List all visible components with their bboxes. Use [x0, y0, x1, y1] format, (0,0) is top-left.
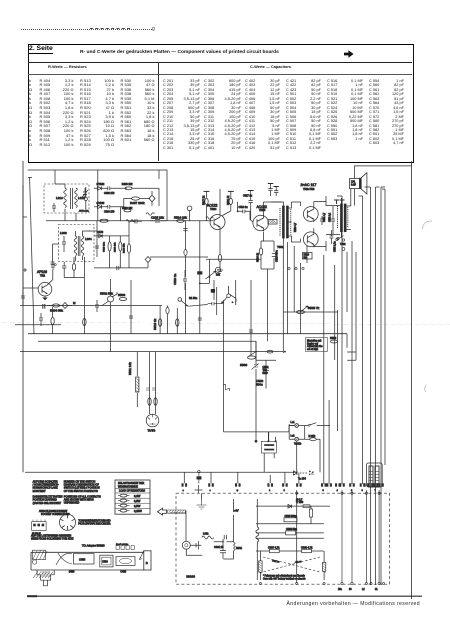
svg-text:12 u7 u3 5,6u: 12 u7 u3 5,6u — [116, 544, 128, 546]
capacitor C313 — [95, 246, 99, 248]
svg-text:M: M — [73, 301, 76, 305]
resistor R512 vertical — [148, 398, 151, 406]
capacitor C516 — [146, 388, 156, 390]
resistor R532 inline oval — [267, 350, 273, 353]
wire L314 top — [55, 184, 65, 213]
capacitor C305 vert — [39, 313, 43, 326]
ground AF126 emitter — [44, 296, 46, 298]
terminal circle b — [342, 248, 345, 251]
svg-text:R502 50k: R502 50k — [100, 292, 113, 296]
wire ratio detector out — [124, 199, 150, 207]
capacitor C519 — [183, 270, 187, 290]
wire x175 drop — [176, 308, 178, 334]
chassis pointer — [139, 551, 143, 560]
svg-text:L601: L601 — [203, 533, 209, 536]
svg-text:C519 1u: C519 1u — [239, 206, 249, 209]
wire x251 vertical — [250, 280, 252, 356]
svg-text:R506: R506 — [118, 293, 126, 297]
svg-text:DARGESTELLTE TASTENPOSITION ZU: DARGESTELLTE TASTENPOSITION ZUSTAND(TAST… — [33, 496, 63, 505]
wire x216 — [216, 287, 218, 315]
svg-text:R601: R601 — [236, 547, 243, 550]
coil L313 — [75, 188, 78, 208]
svg-text:M 252: M 252 — [309, 435, 316, 438]
wire y533 — [256, 532, 324, 534]
svg-text:BELASTBARKEIT DERWIDERSTAENDEL: BELASTBARKEIT DERWIDERSTAENDELOAD OF RES… — [118, 482, 145, 492]
transistor AC122 first — [210, 215, 225, 230]
capacitor C307 — [51, 262, 55, 264]
wire vertical x97 — [96, 231, 98, 257]
wire plug to coil — [186, 545, 202, 555]
wire box top left — [170, 493, 202, 541]
capacitor C308 — [108, 186, 127, 190]
diamond meter M3 — [143, 257, 151, 268]
svg-text:Ta 154: Ta 154 — [298, 477, 306, 481]
lamp La2 — [295, 437, 299, 441]
chassis plug shape — [37, 570, 54, 580]
wire bus y341 — [38, 340, 256, 342]
output selector contacts — [336, 238, 338, 240]
wire AC122-2 emitter — [263, 232, 265, 242]
capacitor stub Kp1 — [268, 183, 273, 185]
svg-text:R407 100k: R407 100k — [130, 201, 145, 205]
wire vertical x84 — [83, 257, 85, 334]
resistor R408 — [125, 187, 132, 190]
terminal marks bottom — [259, 582, 261, 584]
wire top rail — [28, 170, 167, 221]
wire net y538 — [256, 537, 324, 539]
wire x209.4 — [200, 259, 210, 283]
svg-text:R308 10k: R308 10k — [114, 242, 116, 252]
wire antenna lead — [22, 185, 24, 306]
core FI301 — [78, 236, 80, 256]
wire FI301 leads — [76, 231, 91, 261]
stub dots under y432 — [268, 432, 275, 441]
wire x287 vertical — [286, 242, 288, 334]
wire bus y472 — [25, 471, 297, 473]
resistor R310 — [127, 244, 130, 253]
svg-text:R535 7k: R535 7k — [308, 306, 320, 310]
wire x223.5 drop — [223, 300, 225, 432]
resistor R? vertical at 311 — [310, 509, 313, 517]
small connector box — [32, 522, 46, 531]
trimmer circle DB1 — [84, 197, 87, 200]
wire FM bus — [150, 256, 208, 258]
svg-text:TR8+TR9: TR8+TR9 — [303, 187, 315, 191]
svg-text:30: 30 — [349, 589, 352, 591]
wire main bus y334 — [28, 333, 347, 335]
transistor AC117 upper — [303, 207, 318, 222]
svg-text:POSITIONS OF ALL CONTACTSARE S: POSITIONS OF ALL CONTACTSARE SHOWN WITH … — [64, 495, 101, 504]
capacitor C505 box — [284, 518, 297, 522]
big left arrow — [158, 508, 167, 515]
terminal small circle — [54, 264, 56, 266]
resistor R306 — [108, 242, 111, 251]
resistor R536 oval — [248, 356, 256, 359]
resistor hatched right — [322, 563, 325, 572]
wire x199.8 drop — [199, 221, 201, 334]
volume pot with switch — [178, 298, 182, 302]
scratch arc mid — [425, 385, 427, 393]
battery symbol — [196, 541, 199, 550]
junction dots tone — [199, 276, 210, 284]
capacitor C215 — [150, 220, 166, 223]
switch near lamps — [308, 424, 310, 426]
resistor R517 supply stub — [204, 190, 210, 192]
svg-text:B: B — [146, 561, 148, 565]
terminal circle a — [337, 237, 339, 239]
wire AF126 base — [23, 287, 38, 289]
resistor R534 oval — [330, 340, 337, 343]
svg-text:10k: 10k — [216, 274, 221, 277]
resistor R514 — [177, 219, 185, 222]
wire x296 lamp drop in box — [296, 490, 298, 583]
resistor R407 coupling — [132, 197, 140, 200]
coil choke L306 — [146, 213, 154, 216]
svg-text:L303: L303 — [60, 231, 67, 235]
wire cable v8 — [382, 189, 385, 465]
resistor R102 — [124, 209, 131, 212]
wire cable v1 — [370, 187, 372, 585]
svg-text:C505 560p: C505 560p — [285, 515, 298, 518]
resistor R506 oval — [119, 297, 126, 300]
driver transformer secondary bar — [287, 206, 289, 238]
resistor box 6k8 — [211, 289, 215, 293]
wire AC122-1 emitter down — [219, 230, 221, 270]
resistor R527 box right of AC122-2 — [268, 220, 277, 225]
wire net y523 — [256, 523, 324, 525]
svg-text:+TR zu: +TR zu — [272, 561, 280, 564]
resistor R521 oval — [259, 248, 262, 255]
resistor R511 vertical — [136, 377, 139, 392]
wire bus y305 — [20, 305, 162, 307]
resistor R404 — [47, 305, 52, 307]
plug circle BN100 — [182, 541, 190, 549]
transformer FI301 primary — [74, 236, 77, 256]
diode Ta154 left — [293, 471, 297, 475]
svg-text:#430: #430 — [69, 571, 75, 574]
svg-text:L314: L314 — [56, 196, 63, 200]
wire output stage collectors — [314, 196, 326, 251]
resistor R308 — [119, 242, 122, 251]
svg-text:C310 6,8n: C310 6,8n — [104, 241, 106, 252]
chassis box C500 — [100, 555, 113, 567]
emitter network loop — [261, 241, 274, 269]
wire AC117 bases from driver — [291, 202, 300, 242]
terminals above box — [195, 485, 203, 493]
resistor M252 oval — [310, 438, 316, 441]
capacitor C331 stub — [330, 230, 334, 244]
wire loop down — [267, 269, 269, 341]
svg-text:C519 1n: C519 1n — [173, 273, 177, 285]
svg-text:* Fahrzeuge mit +Batteriepol a: * Fahrzeuge mit +Batteriepol am Chassis — [263, 574, 306, 577]
svg-text:R534: R534 — [330, 336, 337, 340]
transistor AC117 lower — [303, 232, 318, 247]
capacitor C304 — [51, 262, 55, 270]
wire cable v5 — [362, 196, 364, 484]
svg-text:C505: C505 — [79, 557, 86, 561]
resistor R516 vertical — [158, 319, 161, 327]
svg-text:Tr 100: Tr 100 — [296, 501, 304, 504]
svg-text:C503 50p: C503 50p — [286, 528, 297, 531]
svg-text:R102 18k: R102 18k — [122, 207, 133, 210]
svg-text:0.25: 0.25 — [351, 184, 356, 187]
transistor AF126 — [38, 282, 52, 296]
wire vertical x131 — [130, 280, 132, 334]
svg-text:BN100: BN100 — [186, 575, 195, 579]
capacitor C315 — [62, 262, 66, 272]
wire top-left riser — [55, 170, 97, 231]
hatched bar — [168, 510, 186, 513]
terminal circle on H11 — [198, 470, 200, 472]
capacitor C521 — [198, 318, 202, 320]
svg-text:0,5W: 0,5W — [134, 504, 141, 508]
wire left rail — [28, 178, 34, 335]
trimmer R535 arrow — [300, 306, 308, 312]
capacitor stub Kp2 — [274, 186, 279, 188]
wire x214 AC122 emitter — [213, 280, 215, 300]
driver transformer primary bar — [283, 206, 285, 238]
wire AM bus drops — [65, 213, 76, 221]
svg-text:Ld: Ld — [362, 589, 365, 591]
svg-text:AUF DEM SCHALTER/ SCHALTERBEZE: AUF DEM SCHALTER/ SCHALTERBEZEICH-NUNG/S… — [33, 481, 59, 493]
wire IF net y236 — [94, 235, 129, 237]
svg-text:NUMBER ON THE SWITCHDIAGRAM /: NUMBER ON THE SWITCHDIAGRAM / DESIGNATIO… — [64, 481, 100, 493]
svg-text:2=AC 117: 2=AC 117 — [301, 183, 317, 187]
capacitor C527 — [252, 364, 259, 370]
supply stub x250.7 — [248, 190, 254, 192]
svg-text:1/302TR5500P: 1/302TR5500P — [263, 367, 269, 375]
FM antenna input circle — [187, 206, 192, 211]
capacitor C302 — [52, 203, 56, 212]
squiggle flexible wire — [224, 384, 230, 391]
dashed box FM IF — [59, 225, 95, 262]
resistor R521 supply stub — [228, 190, 234, 192]
svg-text:31: 31 — [375, 589, 378, 591]
chassis circle C — [32, 560, 36, 564]
crossed dashed wires — [263, 557, 320, 572]
wire AF126 collector — [52, 270, 54, 280]
wire x300 vertical — [299, 263, 301, 334]
diode Ta154 right — [300, 471, 313, 475]
svg-text:R521 1k: R521 1k — [227, 195, 230, 205]
capacitor C552 across — [320, 216, 324, 225]
svg-text:ANSCHLUSSBUCHSEN/SOCKET CONNEC: ANSCHLUSSBUCHSEN/SOCKET CONNECTORS — [39, 510, 70, 516]
dashed box AM tuner — [44, 184, 89, 213]
svg-text:15a: 15a — [338, 589, 343, 591]
wire speaker to frame top — [354, 166, 411, 179]
capacitor C211 — [131, 219, 142, 224]
wire cable top hooks — [337, 187, 385, 196]
svg-text:AUF DIE LOETFAHNEN GESEHENSEEN: AUF DIE LOETFAHNEN GESEHENSEEN FROM SOLD… — [31, 535, 74, 541]
svg-text:C552 0,1: C552 0,1 — [330, 212, 332, 222]
lamp La1 — [295, 424, 299, 428]
resistor R502 inline — [100, 219, 108, 222]
wire bottom rule — [27, 595, 422, 597]
wire diode row — [132, 188, 159, 206]
wire x160 drop — [159, 306, 161, 334]
svg-text:0,5W: 0,5W — [134, 499, 141, 503]
wire y551 — [256, 550, 324, 552]
resistor hatched left — [259, 561, 262, 572]
output transformer leads — [341, 198, 350, 238]
svg-text:TO: Adapter BN100: TO: Adapter BN100 — [82, 544, 105, 548]
svg-text:TA/TB: TA/TB — [148, 429, 156, 433]
wire x256 to dot — [255, 341, 257, 441]
wire y277 link — [64, 272, 84, 278]
trimmer C303 — [82, 188, 88, 199]
capacitor C553 — [331, 206, 335, 234]
capacitor C312 — [117, 266, 119, 270]
svg-text:C525 500u: C525 500u — [276, 250, 279, 262]
svg-text:La2: La2 — [291, 435, 296, 438]
resistor R517b — [166, 307, 169, 313]
wire x356 segment — [355, 252, 357, 360]
svg-text:C436: C436 — [120, 571, 126, 574]
chassis mount hatching — [33, 572, 53, 579]
wire bus y352 — [20, 351, 283, 353]
svg-text:R516 1k: R516 1k — [153, 318, 157, 330]
chassis small parts row — [116, 546, 134, 550]
capacitor C413 — [129, 316, 133, 318]
diode GY102 — [94, 187, 108, 191]
core AM antenna — [71, 188, 73, 209]
resistor value list — [29, 79, 32, 148]
speaker LP — [350, 179, 360, 189]
resistor R415 box — [197, 271, 202, 274]
wire cable v2 — [375, 187, 377, 585]
output transformer primary bar — [341, 204, 343, 232]
DIN socket TA/TB — [146, 414, 159, 427]
ground symbol in box — [197, 499, 207, 509]
wire vertical x137 lower — [136, 352, 138, 407]
fuse symbol — [303, 505, 310, 508]
wire y432 — [224, 426, 295, 432]
terminal circles under output — [288, 267, 290, 269]
capacitor value list — [163, 79, 174, 150]
jack plug — [366, 463, 382, 487]
DIN socket pickup — [60, 514, 76, 530]
svg-text:R408 10k: R408 10k — [122, 183, 133, 186]
terminal circles box top — [341, 492, 343, 494]
svg-text:R536: R536 — [240, 363, 248, 367]
trimmer circle — [215, 267, 220, 272]
mains cap block — [261, 441, 276, 453]
svg-text:R511 10k: R511 10k — [128, 362, 132, 375]
svg-text:L304: L304 — [85, 237, 92, 241]
svg-text:R528: R528 — [304, 255, 310, 257]
resistor R535 oval — [297, 310, 305, 313]
wire x283 vertical — [282, 242, 284, 353]
capacitor C601 — [220, 539, 226, 559]
connector lug below H11 — [197, 476, 202, 479]
wire x233 from top — [232, 499, 234, 534]
scratch arc top — [422, 221, 432, 229]
chassis box C506 — [116, 557, 135, 566]
resistor R528 box — [303, 253, 313, 260]
wire x120 drop — [120, 207, 122, 221]
output transformer windings — [338, 206, 348, 228]
svg-text:+6V: +6V — [234, 510, 239, 513]
load of resistors box — [115, 480, 150, 514]
adjust note box — [306, 338, 328, 352]
resistor R405 vertical — [51, 317, 54, 324]
wire cap block leads — [264, 432, 274, 472]
terminal lugs row — [182, 483, 184, 486]
wire x323.8 vertical — [323, 255, 325, 484]
wire drops to terminals — [184, 400, 329, 484]
svg-text:R524 1k: R524 1k — [257, 252, 260, 262]
svg-text:C308 270: C308 270 — [104, 192, 115, 195]
svg-text:TONABNEHMER/TONBANDPICK-UP/TAP: TONABNEHMER/TONBANDPICK-UP/TAPE RECORDER — [78, 520, 110, 526]
svg-text:R514 22k: R514 22k — [174, 215, 187, 219]
lamp link verticals — [289, 424, 305, 439]
svg-text:set at high: set at high — [307, 348, 319, 351]
svg-text:C601 25: C601 25 — [214, 546, 224, 549]
resistor C507 — [270, 549, 280, 552]
wire cable v7 short — [337, 310, 339, 431]
capacitor C301 input — [21, 292, 25, 306]
svg-text:TR2: TR2 — [40, 274, 45, 278]
wire to speaker — [326, 189, 354, 235]
capacitor C306b — [108, 205, 124, 209]
diode OA70 — [99, 234, 103, 237]
coil L601 — [202, 536, 214, 539]
capacitor C415 — [95, 300, 99, 312]
diamond symbol M1 — [149, 191, 155, 206]
capacitor C503 box — [286, 531, 296, 535]
svg-text:0,25W: 0,25W — [134, 509, 142, 513]
output transformer secondary bar — [344, 204, 346, 232]
wire x266 to bus — [256, 341, 276, 388]
capacitor C519 coupling — [238, 202, 253, 222]
ground AC122-1 — [217, 270, 223, 273]
svg-text:C500: C500 — [102, 561, 108, 564]
wire cable v3 — [380, 187, 382, 585]
coil L201 — [206, 217, 213, 219]
svg-text:T502: T502 — [340, 243, 346, 246]
wire DB2 to AF126 — [53, 244, 60, 262]
resistor C510 — [302, 549, 312, 552]
resistor R515 oval — [184, 250, 187, 256]
wire x334.7 vertical — [334, 265, 336, 360]
resistor R601 vertical — [233, 542, 235, 551]
left border stubs — [23, 217, 27, 272]
wire x294 vertical — [293, 246, 295, 312]
page right border — [411, 161, 413, 599]
choke vertical right — [256, 527, 259, 542]
svg-text:La1: La1 — [291, 421, 296, 424]
svg-text:R1 5kn: R1 5kn — [189, 296, 198, 300]
wire lamp feed — [296, 441, 298, 472]
wire verticals in box — [342, 490, 379, 583]
resistor R406 oval — [72, 264, 75, 271]
diode GY103 — [94, 205, 108, 209]
svg-text:C551 4,7: C551 4,7 — [324, 212, 326, 222]
wire cable v4 — [341, 196, 343, 484]
junction dots pot — [212, 289, 233, 303]
capacitor C520 — [208, 302, 222, 305]
svg-text:AF126: AF126 — [37, 270, 47, 274]
table: component values box — [28, 44, 414, 163]
svg-text:AUTmatic: AUTmatic — [79, 210, 90, 213]
svg-text:500u: 500u — [256, 383, 263, 387]
dashed box car install — [176, 493, 390, 584]
wire cable v6 — [351, 241, 353, 484]
svg-text:C507 4,7k: C507 4,7k — [268, 546, 280, 549]
capacitor C306 — [62, 236, 66, 252]
diode TA153 — [288, 505, 292, 509]
coil B309 — [126, 220, 136, 222]
